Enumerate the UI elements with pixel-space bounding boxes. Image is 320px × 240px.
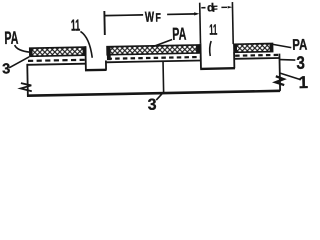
- d_F dimension dash: [221, 6, 227, 8]
- substrate 1 left edge: [26, 64, 29, 96]
- svg-text:F: F: [212, 4, 217, 14]
- trench 2 right wall: [233, 53, 235, 69]
- layer 3 dashed line middle span: [107, 57, 200, 59]
- leader PA right: [273, 44, 291, 48]
- PA segment C left end cap: [234, 44, 237, 53]
- PA layer segment C (hatched bar right): [234, 43, 273, 52]
- leader 11 second (curve into trench 2): [210, 41, 212, 56]
- break symbol on right edge: [275, 76, 284, 85]
- svg-text:3: 3: [296, 53, 305, 73]
- trench 2 bottom: [200, 67, 235, 70]
- leader PA middle: [152, 40, 172, 47]
- svg-text:3: 3: [148, 97, 157, 114]
- trench 1 bottom: [85, 69, 107, 72]
- substrate top line right span: [234, 57, 279, 60]
- leader 3 left: [9, 57, 30, 68]
- dimension W_F left tick: [103, 11, 105, 35]
- leader 1 right: [279, 72, 301, 80]
- PA layer segment B (hatched bar middle): [107, 45, 200, 55]
- PA segment A left end cap: [29, 48, 32, 57]
- leader 3 bottom (diagonal then vertical to layer 3): [156, 62, 164, 100]
- leader 11 first (curved into trench 1): [80, 31, 92, 58]
- PA layer segment A (hatched bar left): [30, 47, 86, 56]
- svg-text:PA: PA: [172, 24, 187, 44]
- trench 2 left wall (below d_F extension): [199, 43, 201, 68]
- svg-text:11: 11: [209, 22, 217, 39]
- leader PA top-left: [15, 45, 31, 53]
- dimension W_F right arrowhead: [194, 12, 199, 15]
- svg-text:11: 11: [71, 17, 81, 34]
- leader 3 right: [280, 59, 295, 60]
- layer 3 dashed line left span: [28, 60, 86, 61]
- d_F left arrowhead: [201, 7, 205, 9]
- trench 1 left wall: [84, 46, 86, 69]
- PA segment A right end cap: [83, 47, 86, 56]
- substrate 1 right edge: [278, 54, 281, 91]
- substrate top line left span: [27, 64, 85, 65]
- PA segment C right end cap: [269, 43, 272, 52]
- substrate top line middle span: [106, 60, 201, 62]
- layer 3 dashed line right span: [235, 54, 279, 57]
- svg-text:F: F: [155, 11, 161, 25]
- d_F right arrowhead: [228, 6, 233, 9]
- svg-text:PA: PA: [4, 28, 18, 48]
- PA segment B left end cap (merges with layer 3 end): [107, 47, 111, 61]
- dimension W_F line right part: [167, 13, 196, 16]
- PA segment B right end cap: [196, 44, 200, 53]
- dimension W_F line left part: [104, 14, 143, 17]
- trench 1 right wall: [105, 61, 107, 70]
- svg-text:W: W: [145, 10, 155, 26]
- break symbol on left edge: [21, 83, 32, 92]
- svg-text:1: 1: [298, 73, 308, 92]
- svg-text:PA: PA: [292, 37, 307, 54]
- svg-text:3: 3: [2, 61, 10, 77]
- substrate 1 bottom edge: [27, 91, 280, 96]
- dimension d_F left extension line: [199, 3, 202, 43]
- dimension d_F right extension line: [231, 2, 234, 44]
